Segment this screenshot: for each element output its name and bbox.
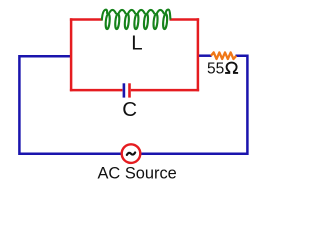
svg-text:55: 55 [207, 61, 224, 78]
svg-text:C: C [122, 98, 137, 121]
svg-text:L: L [131, 31, 142, 54]
svg-text:AC Source: AC Source [98, 165, 177, 183]
